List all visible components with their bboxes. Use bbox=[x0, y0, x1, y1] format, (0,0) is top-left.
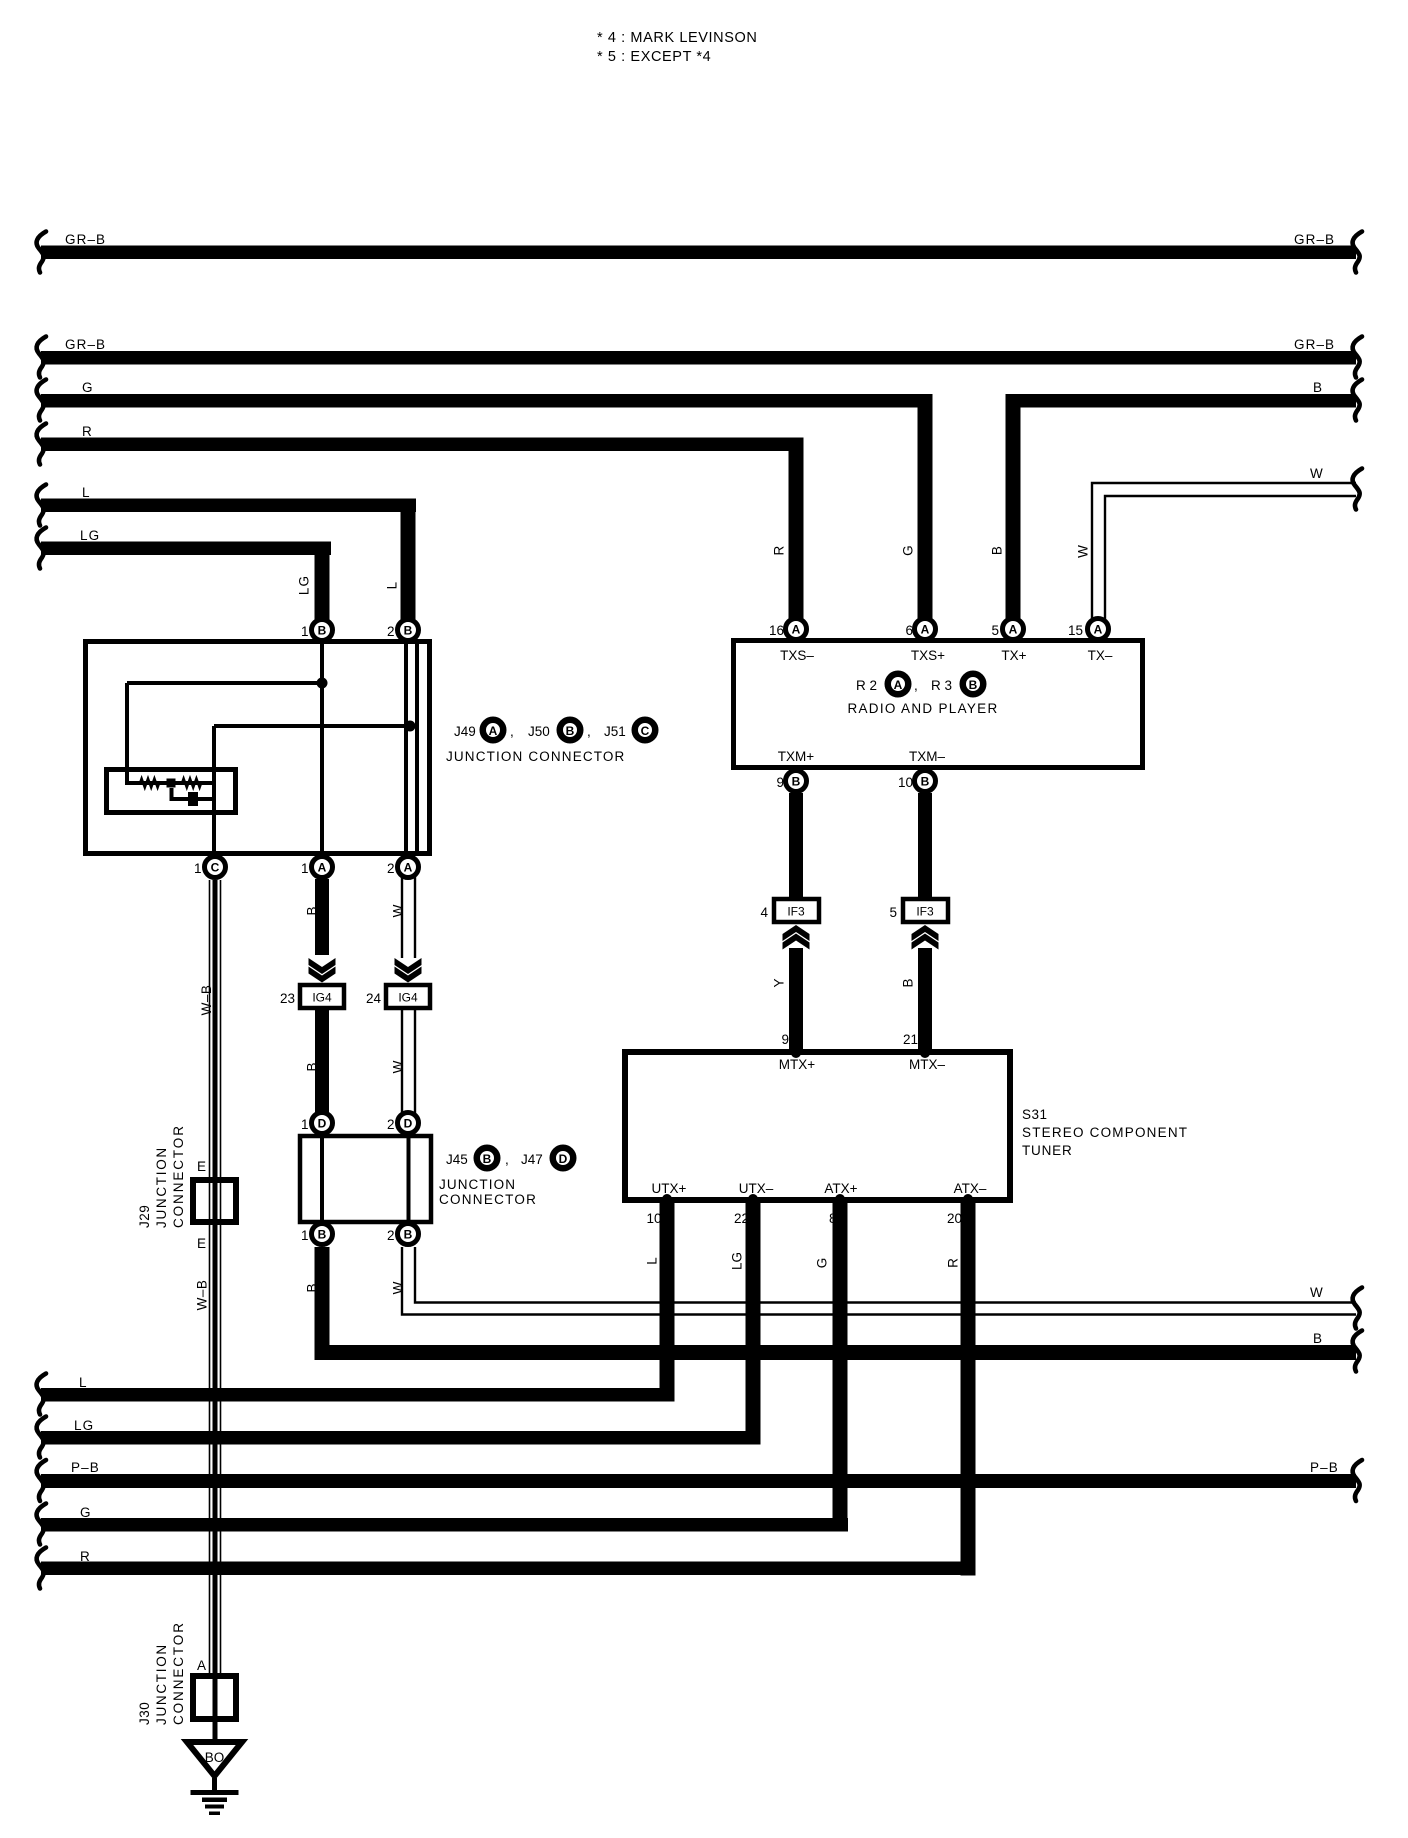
svg-text:B: B bbox=[318, 1228, 327, 1242]
svg-text:RADIO AND PLAYER: RADIO AND PLAYER bbox=[847, 701, 998, 716]
svg-text:W: W bbox=[391, 1281, 406, 1294]
svg-text:MTX–: MTX– bbox=[909, 1057, 945, 1072]
svg-text:R: R bbox=[80, 1549, 91, 1564]
svg-text:5: 5 bbox=[889, 905, 897, 920]
wire R from tuner ATX- to R bus bbox=[41, 1203, 976, 1576]
svg-text:GR–B: GR–B bbox=[1294, 232, 1335, 247]
svg-text:A: A bbox=[921, 623, 930, 637]
arrow into IF3 5 bbox=[912, 925, 939, 950]
junction connector J45/J47 box bbox=[300, 1136, 431, 1222]
svg-text:Y: Y bbox=[772, 978, 787, 987]
pin 1 C bottom bbox=[194, 857, 226, 878]
wire internal horizontal 2 bbox=[214, 724, 417, 728]
svg-text:J51: J51 bbox=[604, 724, 626, 739]
svg-text:W: W bbox=[1310, 466, 1324, 481]
svg-text:A: A bbox=[404, 861, 413, 875]
wire B from tuner MTX- to IF3 5 bbox=[901, 948, 932, 1055]
svg-text:9: 9 bbox=[781, 1032, 789, 1047]
pin bump MTX+ bbox=[791, 1048, 801, 1058]
pin 2 B top bbox=[387, 620, 419, 641]
svg-text:D: D bbox=[559, 1152, 568, 1166]
svg-text:IG4: IG4 bbox=[398, 991, 418, 1005]
wire GR-B second bus bbox=[37, 337, 1362, 378]
svg-text:,: , bbox=[510, 724, 514, 739]
label R bus left bbox=[37, 1548, 91, 1589]
svg-text:TXS–: TXS– bbox=[780, 648, 814, 663]
svg-text:W: W bbox=[391, 1060, 406, 1073]
svg-text:B: B bbox=[404, 624, 413, 638]
svg-text:L: L bbox=[645, 1257, 660, 1265]
svg-text:* 4 : MARK LEVINSON: * 4 : MARK LEVINSON bbox=[597, 30, 757, 46]
svg-text:UTX+: UTX+ bbox=[652, 1181, 687, 1196]
wire internal left vertical bbox=[125, 683, 129, 785]
svg-text:S31: S31 bbox=[1022, 1107, 1048, 1122]
node junction dot on pin1 column bbox=[317, 678, 328, 689]
pin bump MTX- bbox=[920, 1048, 930, 1058]
wire internal 2 column bbox=[407, 1138, 411, 1220]
svg-text:,: , bbox=[914, 678, 918, 693]
svg-text:1: 1 bbox=[301, 1228, 309, 1243]
svg-text:E: E bbox=[197, 1236, 206, 1251]
wire G from tuner ATX+ to G bus bbox=[41, 1203, 848, 1532]
svg-text:GR–B: GR–B bbox=[1294, 337, 1335, 352]
wire B from radio pin 10B to IF3 5 bbox=[918, 793, 932, 899]
resistor coil 1 bbox=[140, 779, 159, 788]
svg-text:J30: J30 bbox=[137, 1702, 152, 1725]
label J29 JUNCTION CONNECTOR bbox=[137, 1124, 186, 1228]
stereo component tuner S31 box bbox=[625, 1052, 1010, 1200]
label G bus left bbox=[37, 1504, 92, 1545]
wire G bus to radio TXS+ bbox=[37, 380, 933, 635]
svg-text:TXM+: TXM+ bbox=[778, 749, 814, 764]
svg-text:W: W bbox=[391, 904, 406, 917]
svg-text:C: C bbox=[641, 724, 650, 738]
wire internal 1 column bbox=[320, 1138, 324, 1220]
pin 2 A bottom bbox=[387, 857, 419, 878]
svg-text:,: , bbox=[587, 724, 591, 739]
svg-text:15: 15 bbox=[1068, 623, 1083, 638]
svg-text:2: 2 bbox=[387, 861, 395, 876]
svg-text:2: 2 bbox=[387, 1228, 395, 1243]
wire Y from radio pin 9B to IF3 4 bbox=[789, 793, 803, 899]
svg-text:2: 2 bbox=[387, 624, 395, 639]
svg-text:1: 1 bbox=[301, 861, 309, 876]
svg-text:B: B bbox=[969, 678, 978, 692]
svg-text:10: 10 bbox=[646, 1211, 661, 1226]
resistor coil 2 bbox=[182, 779, 201, 788]
svg-text:B: B bbox=[1313, 1331, 1322, 1346]
pin 16 A bbox=[769, 619, 807, 640]
pin bump UTX+ bbox=[662, 1194, 672, 1204]
svg-text:16: 16 bbox=[769, 623, 784, 638]
capacitor block 1 bbox=[167, 779, 176, 788]
junction connector J29 box bbox=[193, 1180, 236, 1222]
ground BO triangle bbox=[187, 1742, 242, 1776]
label J45 B , J47 D bbox=[439, 1148, 573, 1207]
svg-text:B: B bbox=[305, 906, 320, 915]
resistor network inner box bbox=[107, 770, 236, 813]
svg-text:L: L bbox=[82, 485, 91, 500]
svg-text:TXM–: TXM– bbox=[909, 749, 945, 764]
svg-text:B: B bbox=[1313, 380, 1323, 395]
svg-text:E: E bbox=[197, 1159, 206, 1174]
svg-text:LG: LG bbox=[74, 1418, 94, 1433]
pin 2 D bbox=[387, 1113, 419, 1134]
label L bus left bbox=[37, 1374, 88, 1415]
wire internal pin2 column line a bbox=[404, 643, 408, 853]
svg-text:R: R bbox=[82, 424, 93, 439]
wire W-B from pin 1C to J30 (white wire with black stripe) bbox=[195, 880, 221, 1722]
svg-text:P–B: P–B bbox=[1310, 1460, 1339, 1475]
wire LG bus to junction connector pin 1B bbox=[37, 528, 331, 634]
svg-text:IG4: IG4 bbox=[312, 991, 332, 1005]
wire R bus to radio TXS- bbox=[37, 424, 804, 635]
label J30 JUNCTION CONNECTOR bbox=[137, 1621, 186, 1725]
svg-text:D: D bbox=[318, 1117, 327, 1131]
svg-text:J50: J50 bbox=[528, 724, 550, 739]
svg-text:R 2: R 2 bbox=[856, 678, 877, 693]
svg-text:G: G bbox=[82, 380, 94, 395]
pin bump ATX- bbox=[963, 1194, 973, 1204]
svg-text:B: B bbox=[483, 1152, 492, 1166]
svg-text:JUNCTION: JUNCTION bbox=[439, 1177, 516, 1192]
arrow into IF3 4 bbox=[783, 925, 810, 950]
svg-text:UTX–: UTX– bbox=[739, 1181, 774, 1196]
svg-text:A: A bbox=[318, 861, 327, 875]
pin 1 A bottom bbox=[301, 857, 333, 878]
svg-text:R 3: R 3 bbox=[931, 678, 952, 693]
svg-text:24: 24 bbox=[366, 991, 382, 1006]
wire J30 to ground bbox=[213, 1719, 218, 1744]
svg-text:J49: J49 bbox=[454, 724, 476, 739]
wire W from pin 2B to W bus right (hollow) bbox=[391, 1247, 1362, 1329]
svg-text:W–B: W–B bbox=[195, 1280, 210, 1311]
svg-text:1: 1 bbox=[301, 624, 309, 639]
svg-text:J45: J45 bbox=[446, 1152, 468, 1167]
wire L from tuner UTX+ to L bus bbox=[41, 1203, 675, 1402]
svg-text:ATX+: ATX+ bbox=[824, 1181, 857, 1196]
svg-text:B: B bbox=[566, 724, 575, 738]
svg-text:9: 9 bbox=[776, 775, 784, 790]
radio and player box bbox=[734, 641, 1143, 768]
svg-text:B: B bbox=[404, 1228, 413, 1242]
svg-text:W: W bbox=[1076, 544, 1091, 558]
svg-text:L: L bbox=[79, 1375, 88, 1390]
wire W from pin 2A to IG4 24 (hollow) bbox=[391, 876, 415, 958]
svg-text:MTX+: MTX+ bbox=[779, 1057, 815, 1072]
wire capacitor drop bbox=[172, 788, 215, 799]
svg-text:21: 21 bbox=[903, 1032, 918, 1047]
svg-text:G: G bbox=[80, 1505, 92, 1520]
wire internal pin2 column line b bbox=[415, 643, 419, 853]
wire W from IG4 24 to pin 2D (hollow) bbox=[391, 1010, 415, 1114]
wire GR-B top bus bbox=[37, 232, 1362, 273]
wire resistor row bbox=[127, 781, 214, 785]
svg-text:TXS+: TXS+ bbox=[911, 648, 945, 663]
svg-text:J47: J47 bbox=[521, 1152, 543, 1167]
svg-text:23: 23 bbox=[280, 991, 295, 1006]
svg-text:B: B bbox=[305, 1283, 320, 1292]
node junction dot on pin2 column bbox=[405, 721, 416, 732]
svg-text:W–B: W–B bbox=[199, 985, 214, 1016]
pin bump ATX+ bbox=[835, 1194, 845, 1204]
pin 1 B top bbox=[301, 620, 333, 641]
svg-text:A: A bbox=[1009, 623, 1018, 637]
svg-text:6: 6 bbox=[905, 623, 913, 638]
svg-text:D: D bbox=[404, 1117, 413, 1131]
pin 2 B bbox=[387, 1224, 419, 1245]
svg-text:P–B: P–B bbox=[71, 1460, 100, 1475]
arrow into IG4 24 bbox=[395, 958, 422, 983]
svg-text:A: A bbox=[197, 1658, 206, 1673]
wire B bus to radio TX+ bbox=[990, 380, 1362, 635]
svg-text:B: B bbox=[921, 775, 930, 789]
label LG bus left bbox=[37, 1417, 95, 1458]
svg-text:LG: LG bbox=[730, 1252, 745, 1270]
svg-text:5: 5 bbox=[991, 623, 999, 638]
pin bump UTX- bbox=[748, 1194, 758, 1204]
svg-text:LG: LG bbox=[297, 575, 312, 595]
wire B from IG4 23 to pin 1D bbox=[305, 1010, 329, 1116]
svg-text:4: 4 bbox=[760, 905, 768, 920]
svg-text:ATX–: ATX– bbox=[954, 1181, 987, 1196]
wire B from pin 1B to B bus right bbox=[305, 1247, 1362, 1372]
svg-text:JUNCTION CONNECTOR: JUNCTION CONNECTOR bbox=[446, 749, 625, 764]
svg-text:* 5 : EXCEPT *4: * 5 : EXCEPT *4 bbox=[597, 49, 711, 65]
svg-text:G: G bbox=[815, 1258, 830, 1269]
svg-text:1: 1 bbox=[301, 1117, 309, 1132]
svg-text:C: C bbox=[211, 861, 220, 875]
svg-text:L: L bbox=[385, 581, 400, 590]
svg-text:TX+: TX+ bbox=[1001, 648, 1026, 663]
wire internal horizontal 1 bbox=[127, 681, 322, 685]
svg-text:B: B bbox=[305, 1062, 320, 1071]
connector IF3 pin 5 bbox=[889, 899, 948, 922]
wire triangle to ground bars bbox=[212, 1778, 217, 1790]
svg-text:A: A bbox=[792, 623, 801, 637]
svg-text:R: R bbox=[772, 545, 787, 556]
svg-text:B: B bbox=[990, 545, 1005, 555]
svg-text:STEREO COMPONENT: STEREO COMPONENT bbox=[1022, 1125, 1188, 1140]
capacitor block 2 bbox=[188, 792, 198, 806]
svg-text:CONNECTOR: CONNECTOR bbox=[171, 1621, 186, 1725]
pin 9 B bbox=[776, 771, 806, 792]
label R 2 A , R 3 B bbox=[856, 674, 983, 695]
svg-text:IF3: IF3 bbox=[787, 905, 805, 919]
svg-text:GR–B: GR–B bbox=[65, 337, 106, 352]
pin 5 A bbox=[991, 619, 1023, 640]
arrow into IG4 23 bbox=[309, 958, 336, 983]
svg-text:A: A bbox=[1094, 623, 1103, 637]
wire W to radio TX- (hollow white wire) bbox=[1076, 466, 1362, 629]
pin 10 B bbox=[898, 771, 936, 792]
wire B from pin 1A to IG4 23 bbox=[305, 879, 329, 955]
junction connector J49/J50/J51 box bbox=[86, 642, 430, 854]
svg-text:TX–: TX– bbox=[1088, 648, 1113, 663]
svg-text:20: 20 bbox=[947, 1211, 962, 1226]
connector IG4 pin 23 bbox=[280, 985, 344, 1008]
svg-text:GR–B: GR–B bbox=[65, 232, 106, 247]
pin 1 B bbox=[301, 1224, 333, 1245]
wire P-B bus bbox=[37, 1460, 1362, 1501]
svg-text:BO: BO bbox=[205, 1750, 225, 1765]
svg-text:JUNCTION: JUNCTION bbox=[154, 1146, 169, 1228]
svg-text:J29: J29 bbox=[137, 1205, 152, 1228]
svg-text:IF3: IF3 bbox=[916, 905, 934, 919]
svg-text:2: 2 bbox=[387, 1117, 395, 1132]
label S31 STEREO COMPONENT TUNER bbox=[1022, 1107, 1188, 1158]
connector IG4 pin 24 bbox=[366, 985, 430, 1008]
svg-text:1: 1 bbox=[194, 861, 202, 876]
wire internal mid vertical to pin 1C bbox=[212, 726, 216, 866]
pin 6 A bbox=[905, 619, 935, 640]
svg-text:B: B bbox=[318, 624, 327, 638]
pin 15 A bbox=[1068, 619, 1109, 640]
svg-text:A: A bbox=[489, 724, 498, 738]
wire L bus to junction connector pin 2B bbox=[37, 485, 416, 634]
junction connector J30 box bbox=[193, 1676, 236, 1719]
wire Y from tuner MTX+ to IF3 4 bbox=[772, 948, 803, 1055]
label J49 A , J50 B , J51 C bbox=[446, 720, 655, 764]
svg-text:G: G bbox=[901, 544, 916, 556]
svg-text:LG: LG bbox=[80, 528, 100, 543]
svg-text:R: R bbox=[946, 1258, 961, 1268]
note text bbox=[597, 30, 757, 65]
connector IF3 pin 4 bbox=[760, 899, 819, 922]
ground bars bbox=[191, 1790, 239, 1815]
svg-text:B: B bbox=[792, 775, 801, 789]
svg-text:,: , bbox=[505, 1152, 509, 1167]
wire internal pin1 column bbox=[320, 643, 324, 853]
pin 1 D bbox=[301, 1113, 333, 1134]
svg-text:10: 10 bbox=[898, 775, 913, 790]
wire LG from tuner UTX- to LG bus bbox=[41, 1203, 761, 1445]
svg-text:JUNCTION: JUNCTION bbox=[154, 1643, 169, 1725]
svg-text:CONNECTOR: CONNECTOR bbox=[171, 1124, 186, 1228]
svg-text:A: A bbox=[894, 678, 903, 692]
svg-text:W: W bbox=[1310, 1285, 1323, 1300]
svg-text:TUNER: TUNER bbox=[1022, 1143, 1073, 1158]
svg-text:B: B bbox=[901, 978, 916, 987]
svg-text:CONNECTOR: CONNECTOR bbox=[439, 1192, 537, 1207]
